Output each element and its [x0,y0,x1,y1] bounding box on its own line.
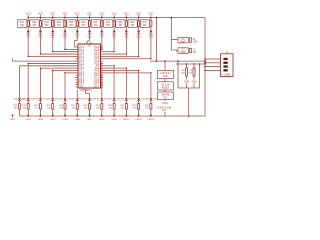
svg-text:CON4: CON4 [224,75,231,77]
resistor R21 (bottom) [125,101,127,104]
wire P0 column 6 [101,34,103,49]
LED D2 (top) [39,26,41,30]
wire P1 column 2 [52,34,54,52]
svg-text:LED: LED [13,99,18,101]
resistor R25 [76,18,78,21]
svg-text:P2.1: P2.1 [94,86,100,89]
svg-text:SW-PB: SW-PB [162,94,170,96]
LED D10 (top) [138,26,140,30]
LED D14 (bottom) [39,98,42,100]
svg-text:R26: R26 [81,22,86,24]
wire P0 column 8 [125,34,127,54]
svg-text:RESET: RESET [162,88,170,90]
svg-text:LED: LED [71,99,76,101]
wire P0 column 9 [138,34,140,56]
wire P1 column 0 [27,34,29,56]
wire P1 column 3 [64,34,66,49]
svg-text:R30: R30 [130,22,135,24]
wire column 4 jog [76,34,78,41]
resistor R19 (bottom) [101,101,103,104]
resistor R13 (bottom) [27,101,29,104]
wire connector stubs [205,58,221,60]
wire P1 column 1 [39,34,41,54]
capacitor C1 / crystal X1 [171,39,178,41]
node LED12 [150,115,152,117]
resistor R20 (bottom) [113,101,115,104]
LED D3 (top) [52,26,54,30]
resistor R23 [52,18,54,21]
svg-text:LED6: LED6 [75,119,81,121]
wire P3 column 9 [103,70,139,72]
wire rail 2 [176,63,207,65]
wire column 6 right [101,63,103,98]
wire P2 column 2 [52,71,54,99]
resistor R29 [125,18,127,21]
LED D6 (top) [89,26,91,30]
resistor R22 [39,18,41,21]
wire P0 column 10 [150,34,152,59]
resistor R30 [138,18,140,21]
LED D20 (bottom) [113,98,116,100]
svg-text:R23: R23 [44,22,49,24]
svg-text:R1 8.2K: R1 8.2K [161,84,170,86]
svg-text:GND: GND [191,81,196,83]
svg-text:LED: LED [46,99,51,101]
svg-text:30A: 30A [162,109,167,112]
resistor R21 [27,18,29,21]
svg-text:12M: 12M [193,41,198,44]
wire top-right net [156,18,158,62]
svg-text:R27: R27 [94,22,99,24]
svg-text:AT89C51: AT89C51 [80,88,92,92]
wire pull gnd drop [188,88,190,116]
resistor R17 (bottom) [76,101,78,104]
svg-text:R21: R21 [20,22,25,24]
wire P2 column 1 [39,68,41,98]
svg-text:R25: R25 [69,22,74,24]
node LED11 [138,115,140,117]
wire XTAL rail [150,60,207,62]
wire P2 column 3 [64,73,66,98]
node LED6 [76,115,78,117]
LED D5 (top) [76,26,78,30]
svg-text:LED: LED [22,99,27,101]
LED D8 (top) [113,26,115,30]
wire net P3.6 far left [11,58,13,61]
node LED10 [125,115,127,117]
wire net P3.7 left column [20,65,76,67]
resistor R28 [113,18,115,21]
LED D18 (bottom) [88,98,91,100]
wire P3 column 10 [103,72,151,74]
node LED2 [27,115,29,117]
capacitor C2 [171,49,177,51]
svg-text:LED7: LED7 [87,119,93,121]
svg-text:LED2: LED2 [25,119,31,121]
LED D17 (bottom) [76,98,79,100]
svg-text:30pF: 30pF [180,40,186,43]
svg-text:LED: LED [145,99,150,101]
svg-text:LED8: LED8 [99,119,105,121]
svg-text:LED: LED [59,99,64,101]
wire column under IC 4 [76,90,78,99]
svg-text:10K: 10K [181,73,185,75]
svg-text:LED10: LED10 [123,119,130,121]
resistor R1 reset [164,79,166,82]
svg-text:LED: LED [34,99,39,101]
node LED4 [52,115,54,117]
resistor R26 [89,18,91,21]
svg-text:LED3: LED3 [38,119,44,121]
resistor R16 (bottom) [64,101,66,104]
svg-text:R29: R29 [118,22,123,24]
resistor R2 pull [186,64,188,68]
node LED8 [101,115,103,117]
resistor R24 [64,18,66,21]
svg-text:KEY: KEY [163,98,168,100]
wire column 5 to IC top [89,34,91,41]
svg-text:10K: 10K [188,73,192,75]
resistor R27 [101,18,103,21]
svg-text:R24: R24 [57,22,62,24]
svg-text:LED1: LED1 [10,119,16,121]
svg-text:LED: LED [96,99,101,101]
wire gnd bar [178,87,200,89]
wire P3 column 7 [103,65,114,67]
svg-text:CAP-E 47: CAP-E 47 [160,72,171,75]
svg-text:LED9: LED9 [111,119,117,121]
ground chain [164,100,166,102]
svg-text:LED4: LED4 [50,119,56,121]
wire column under IC 5 jog [85,90,87,94]
svg-text:R31: R31 [143,22,148,24]
wire P0 column 7 [113,34,115,52]
LED D21 (bottom) [125,98,128,100]
wire GND bottom rail [20,115,206,117]
LED D19 (bottom) [100,98,103,100]
resistor R14 (bottom) [39,101,41,104]
wire EA feed [177,61,179,88]
svg-text:LED: LED [108,99,113,101]
resistor R18 (bottom) [89,101,91,104]
resistor R22 (bottom) [138,101,140,104]
op-amp U1 AT89C51 IC body [78,44,101,88]
svg-text:LED12: LED12 [148,119,155,121]
LED D1 (top) [27,26,29,30]
wire P3 column 8 [103,67,126,69]
svg-text:LED: LED [120,99,125,101]
resistor R15 (bottom) [52,101,54,104]
LED D13 (bottom) [27,98,30,100]
LED D23 (bottom) [149,98,152,100]
node LED5 [64,115,66,117]
capacitor C3 [164,61,166,70]
LED D22 (bottom) [137,98,140,100]
switch SW1 [164,90,166,92]
LED D16 (bottom) [64,98,67,100]
svg-text:30pF: 30pF [180,51,186,54]
LED D15 (bottom) [51,98,54,100]
svg-text:LED11: LED11 [135,119,142,121]
wire P2 column 0 [27,63,29,98]
node LED3 [39,115,41,117]
svg-text:LED5: LED5 [62,119,68,121]
svg-text:GND: GND [184,81,189,83]
node LED9 [113,115,115,117]
resistor R12 (bottom) [19,101,21,104]
svg-text:LED: LED [83,99,88,101]
resistor R31 [150,18,152,21]
wire VCC top rail [28,17,205,19]
svg-text:R22: R22 [32,22,37,24]
LED D12 (bottom) [18,98,21,100]
svg-text:10uF: 10uF [163,76,169,78]
wire crystal feed [170,18,172,51]
svg-text:R28: R28 [106,22,111,24]
node LED1 [12,115,14,117]
LED D11 (top) [150,26,152,30]
svg-text:GND: GND [162,103,167,105]
resistor R23 (bottom) [150,101,152,104]
svg-text:LED: LED [132,99,137,101]
LED D7 (top) [101,26,103,30]
resistor C4 pull [193,64,195,68]
node LED7 [89,115,91,117]
LED D4 (top) [64,26,66,30]
LED D9 (top) [125,26,127,30]
